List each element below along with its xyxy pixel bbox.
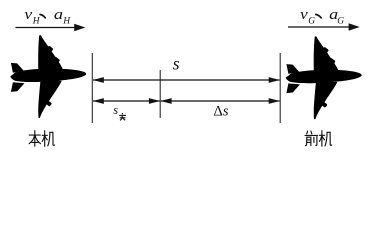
svg-text:G: G [308, 16, 315, 26]
svg-text:Δs: Δs [214, 104, 229, 120]
dimension line s_an (safe separation) [93, 98, 160, 104]
JI character (first) [42, 134, 47, 136]
dimension line delta-s (closing distance) [161, 98, 280, 104]
svg-text:s: s [113, 103, 118, 117]
lead aircraft silhouette (right plane) [286, 36, 362, 119]
lower wing engine 2 [45, 100, 52, 107]
fuselage [13, 69, 86, 82]
label vG aG (lead aircraft velocity/accel) [300, 7, 344, 26]
arrow for vH aH [16, 24, 86, 31]
upper tailplane [11, 63, 25, 73]
ideographic comma after vH [40, 15, 45, 18]
svg-text:s: s [173, 53, 180, 73]
left extension tick line [91, 53, 93, 123]
ideographic comma after vG [316, 15, 321, 18]
label s_an [113, 103, 126, 120]
dimension line s (total separation) [93, 77, 280, 83]
tail cone [10, 73, 16, 81]
middle extension tick line [159, 70, 161, 118]
arrow for vG aG [288, 23, 360, 30]
own aircraft silhouette (left plane) [10, 35, 86, 118]
svg-text:H: H [32, 16, 41, 26]
svg-text:H: H [62, 16, 71, 26]
svg-text:v: v [24, 7, 32, 23]
upper wing engine 1 [47, 46, 54, 52]
caption QIANJI (lead aircraft) [305, 131, 332, 147]
JI character (second) [319, 134, 324, 136]
caption BENJI (own aircraft) [29, 131, 54, 147]
BEN character [29, 134, 40, 136]
svg-text:a: a [54, 7, 63, 23]
lower tailplane [11, 82, 25, 92]
lower wing [38, 79, 62, 118]
svg-text:v: v [300, 7, 308, 23]
tiny CJK subscript AN (safe) [119, 113, 126, 120]
QIAN character [306, 131, 309, 134]
right extension tick line [279, 53, 281, 123]
label vH aH (own aircraft velocity/accel) [24, 7, 71, 26]
svg-text:G: G [337, 16, 344, 26]
upper wing engine 2 [53, 56, 60, 63]
lower wing engine 1 [48, 90, 55, 96]
upper wing [38, 35, 64, 73]
